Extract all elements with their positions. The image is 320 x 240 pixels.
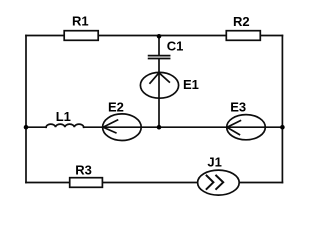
wire middle horizontal left segment	[26, 126, 46, 128]
resistor R1	[64, 31, 98, 41]
wire right vertical	[281, 36, 283, 183]
node junction middle-center (E1 branch / middle wire)	[157, 125, 162, 130]
EMF source E3	[227, 115, 266, 140]
EMF source E1	[140, 72, 178, 98]
node junction middle-left	[24, 125, 29, 130]
resistor R2	[226, 31, 260, 41]
svg-text:E2: E2	[108, 100, 124, 115]
current source J1	[198, 170, 240, 195]
wire C1-E1 branch vertical	[158, 36, 160, 55]
svg-text:E1: E1	[183, 77, 199, 92]
svg-text:R1: R1	[72, 14, 89, 29]
wire middle horizontal main segment	[84, 126, 283, 128]
wire left vertical	[25, 36, 27, 183]
svg-text:C1: C1	[167, 39, 184, 54]
EMF source E2	[103, 114, 142, 141]
wire bottom horizontal	[26, 182, 282, 184]
svg-text:J1: J1	[207, 154, 221, 169]
node junction top (C1 branch / top wire)	[157, 34, 162, 39]
wire top horizontal	[26, 35, 282, 37]
svg-text:L1: L1	[56, 109, 71, 124]
svg-text:R2: R2	[233, 14, 250, 29]
svg-text:E3: E3	[230, 99, 246, 114]
resistor R3	[70, 178, 103, 188]
svg-text:R3: R3	[75, 163, 92, 178]
capacitor C1	[149, 56, 170, 59]
node junction middle-right	[280, 125, 285, 130]
inductor L1	[46, 124, 84, 127]
